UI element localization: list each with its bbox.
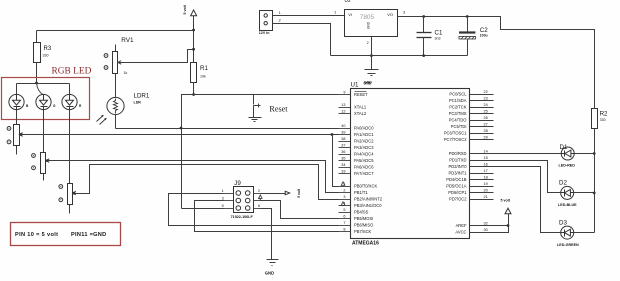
- wire PD1 to LED D2: [470, 161, 561, 193]
- wire bus to LED G (diagonal): [37, 83, 44, 95]
- LED G (green of RGB): [36, 94, 56, 109]
- junction dot AREF/AVCC: [507, 224, 510, 227]
- svg-text:PC0/SCL: PC0/SCL: [449, 92, 467, 97]
- resistor R3: [34, 31, 52, 84]
- connector 12V in: [259, 11, 281, 35]
- LED B (blue of RGB): [9, 94, 29, 109]
- svg-text:33: 33: [341, 170, 345, 174]
- wire RV1 wiper to 5V node: [118, 50, 194, 63]
- svg-text:RGB LED: RGB LED: [52, 67, 92, 77]
- connector J9 (ISP 2x3): [222, 180, 261, 219]
- arrow terminal at MCU pin 4: [341, 202, 345, 206]
- svg-text:XTAL2: XTAL2: [354, 111, 367, 116]
- svg-text:71922-106LF: 71922-106LF: [231, 215, 254, 219]
- svg-text:13: 13: [341, 103, 345, 107]
- svg-text:24: 24: [484, 103, 488, 107]
- svg-text:PC6/TOSC1: PC6/TOSC1: [444, 131, 467, 136]
- svg-text:PD5/OC1A: PD5/OC1A: [446, 184, 467, 189]
- svg-text:VO: VO: [387, 12, 393, 17]
- svg-text:AVCC: AVCC: [455, 230, 466, 235]
- svg-text:U2: U2: [344, 0, 351, 4]
- svg-text:26: 26: [484, 116, 488, 120]
- wire PD2 to LED D3: [470, 167, 561, 233]
- svg-text:PC3/TMS: PC3/TMS: [449, 111, 467, 116]
- svg-text:PD1/TXD: PD1/TXD: [449, 158, 466, 163]
- wire 5V top rail to R3: [37, 30, 194, 32]
- wire reset net left/down rail: [182, 95, 194, 209]
- junction dot C2 top: [466, 15, 469, 18]
- svg-text:5 volt: 5 volt: [297, 188, 301, 198]
- junction dot preset2 wiper: [46, 159, 49, 162]
- svg-text:12V in: 12V in: [259, 31, 270, 35]
- ground symbol (J9 pin6): [267, 260, 279, 266]
- svg-text:C1: C1: [435, 29, 443, 36]
- wire J9 pin4 to PB5 (pin 6): [261, 201, 339, 219]
- svg-text:5 volt: 5 volt: [183, 4, 187, 14]
- preset trimmer 3 (R): [59, 184, 76, 214]
- svg-text:XTAL1: XTAL1: [354, 105, 367, 110]
- capacitor C2 (electrolytic): [459, 17, 488, 56]
- svg-text:25: 25: [484, 110, 488, 114]
- wire AVCC to 5v node: [470, 226, 509, 233]
- svg-text:PC2/TCK: PC2/TCK: [449, 105, 467, 110]
- svg-text:3: 3: [343, 195, 345, 199]
- LED D1: [559, 144, 576, 168]
- svg-text:6: 6: [258, 204, 260, 208]
- svg-text:PIN 10 = 5 volt: PIN 10 = 5 volt: [15, 232, 58, 238]
- svg-text:PD7/OC2: PD7/OC2: [449, 197, 467, 202]
- pot RV1: [104, 37, 134, 75]
- svg-text:PC4/TDO: PC4/TDO: [449, 118, 467, 123]
- arrow terminal at MCU pin 1: [341, 182, 345, 186]
- wire LED R cathode to preset 3: [69, 110, 71, 184]
- svg-text:23: 23: [484, 97, 488, 101]
- ground bus (power section): [331, 55, 468, 57]
- svg-text:PA6/ADC6: PA6/ADC6: [354, 165, 374, 170]
- svg-text:18: 18: [484, 176, 488, 180]
- junction dot RV1/R1/5V: [192, 48, 195, 51]
- svg-text:5 volt: 5 volt: [501, 199, 511, 203]
- svg-text:34: 34: [341, 163, 345, 167]
- svg-text:R1: R1: [200, 65, 208, 72]
- svg-text:D2: D2: [559, 180, 567, 187]
- wire J9 pin2 to 5 volt terminal: [261, 193, 286, 195]
- preset trimmer 1 (B): [7, 125, 23, 155]
- svg-text:VI: VI: [348, 12, 352, 17]
- wire 7805 GND pin to bus: [367, 37, 372, 56]
- svg-text:3: 3: [403, 11, 405, 15]
- svg-text:B: B: [26, 104, 29, 108]
- junction dot D2 rail: [593, 192, 596, 195]
- svg-text:17: 17: [484, 169, 488, 173]
- svg-text:PC1/SDA: PC1/SDA: [449, 98, 467, 103]
- svg-text:GND: GND: [364, 81, 372, 85]
- svg-text:3n3: 3n3: [435, 37, 441, 41]
- svg-text:LDR1: LDR1: [134, 93, 150, 100]
- svg-text:J9: J9: [234, 180, 241, 187]
- wire PD0 to LED D1: [470, 153, 562, 155]
- wire RV1 bottom to LDR1: [115, 74, 117, 98]
- svg-text:PA2/ADC2: PA2/ADC2: [354, 139, 374, 144]
- push button Reset: [254, 95, 261, 118]
- junction dot C1 top: [422, 15, 425, 18]
- svg-text:6: 6: [343, 215, 345, 219]
- svg-text:GND: GND: [265, 271, 274, 276]
- wire bus to LED R: [69, 84, 71, 95]
- label RGB LED: [52, 67, 92, 77]
- svg-text:ATMEGA16: ATMEGA16: [352, 241, 379, 247]
- arrow terminal at J9 pin 4: [259, 195, 263, 201]
- svg-text:30: 30: [484, 228, 488, 232]
- ground under reset button: [249, 118, 262, 122]
- svg-text:PA3/ADC3: PA3/ADC3: [354, 145, 374, 150]
- wire preset1 wiper to PA1 (pin 39): [21, 134, 339, 136]
- svg-text:20: 20: [484, 189, 488, 193]
- wire 7805 VO output rail: [398, 17, 595, 109]
- svg-text:40: 40: [341, 124, 345, 128]
- label GND (J9 ground): [265, 271, 274, 276]
- svg-text:PIN11 =GND: PIN11 =GND: [71, 232, 107, 238]
- resistor R2: [592, 109, 609, 129]
- svg-text:PD0/RXD: PD0/RXD: [449, 151, 467, 156]
- svg-text:7805: 7805: [360, 14, 375, 21]
- label PIN 10 = 5 volt: [15, 232, 58, 238]
- resistor R1: [191, 63, 209, 95]
- capacitor C1: [417, 17, 443, 56]
- svg-text:29: 29: [484, 136, 488, 140]
- svg-text:RESET: RESET: [354, 92, 368, 97]
- svg-text:RV1: RV1: [121, 37, 134, 44]
- wire reset rail to J9 pin 5: [182, 208, 224, 210]
- ground symbol under 7805: [365, 56, 379, 76]
- svg-text:1: 1: [222, 189, 224, 193]
- svg-text:PA5/ADC5: PA5/ADC5: [354, 158, 374, 163]
- wire D1 to rail: [575, 153, 595, 155]
- svg-text:PD6/ICP1: PD6/ICP1: [448, 190, 467, 195]
- svg-text:PB1/T1: PB1/T1: [354, 190, 368, 195]
- junction dot preset1 wiper: [20, 133, 23, 136]
- svg-text:R3: R3: [44, 46, 52, 52]
- wire LED G cathode to preset 2: [43, 110, 45, 153]
- svg-text:PB4/SS: PB4/SS: [354, 210, 369, 215]
- wire reset net to MCU pin 9: [194, 94, 339, 96]
- svg-text:15: 15: [484, 156, 488, 160]
- svg-text:39: 39: [341, 131, 345, 135]
- svg-text:1: 1: [334, 11, 336, 15]
- svg-text:35: 35: [341, 157, 345, 161]
- svg-text:2: 2: [367, 41, 369, 45]
- junction dot PA1/PB0 branch: [331, 133, 334, 136]
- wire LED B cathode to preset 1: [16, 110, 18, 125]
- svg-text:2: 2: [343, 189, 345, 193]
- junction dot R3/bus: [35, 82, 38, 85]
- junction dot C1 bottom: [422, 54, 425, 57]
- label PIN11 = GND: [71, 232, 107, 238]
- wire D3 to rail: [574, 232, 595, 234]
- svg-text:U1: U1: [351, 82, 359, 89]
- preset trimmer 2 (G): [32, 153, 50, 181]
- power terminal 5 volt (J9 pin2): [285, 188, 301, 198]
- svg-text:1k: 1k: [124, 71, 128, 75]
- svg-text:330: 330: [43, 54, 49, 58]
- wire rail R2 to LEDs: [594, 129, 596, 233]
- regulator U2 7805: [334, 0, 405, 37]
- wire 12V pin2 to ground bus: [273, 24, 331, 56]
- svg-text:9: 9: [343, 91, 345, 95]
- svg-text:PA1/ADC1: PA1/ADC1: [354, 132, 374, 137]
- wire 12V pin1 to 7805 VI: [273, 15, 345, 17]
- svg-text:PB0/T0/XCK: PB0/T0/XCK: [354, 184, 377, 189]
- svg-text:PC5/TDI: PC5/TDI: [451, 124, 467, 129]
- svg-text:37: 37: [341, 144, 345, 148]
- IC U1 ATMEGA16: [339, 81, 494, 246]
- power terminal 5 volt (AREF): [501, 199, 512, 226]
- svg-text:PA0/ADC0: PA0/ADC0: [354, 126, 374, 131]
- svg-text:Reset: Reset: [269, 105, 288, 114]
- svg-text:2: 2: [279, 19, 281, 23]
- wire D2 to rail: [574, 192, 595, 194]
- label Reset: [269, 105, 288, 114]
- wire bus to LED B: [16, 84, 18, 95]
- junction dot reset rail at PA0 wire: [180, 127, 183, 130]
- svg-text:1: 1: [279, 11, 281, 15]
- svg-text:27: 27: [484, 123, 488, 127]
- svg-text:10k: 10k: [200, 75, 206, 79]
- wire 5V down to R1: [193, 31, 195, 63]
- svg-text:8: 8: [343, 228, 345, 232]
- wire branch PA1 to PB0 (pin 1): [333, 135, 339, 187]
- wire preset3 wiper to PB2 (pin 3): [75, 165, 339, 200]
- note box PIN10/PIN11 (red): [11, 223, 121, 246]
- LED D2: [558, 180, 577, 208]
- svg-text:R2: R2: [600, 111, 608, 118]
- svg-text:PD3/INT1: PD3/INT1: [449, 171, 468, 176]
- svg-text:2: 2: [258, 189, 260, 193]
- svg-text:PB6/MISO: PB6/MISO: [354, 223, 373, 228]
- svg-text:R: R: [79, 104, 82, 108]
- svg-text:5: 5: [222, 204, 224, 208]
- wire J9 pin3 to PB7 (pin 8): [195, 201, 339, 232]
- svg-text:LED-GREEN: LED-GREEN: [557, 243, 579, 247]
- svg-text:AREF: AREF: [456, 223, 467, 228]
- svg-text:7: 7: [343, 221, 345, 225]
- svg-text:PD2/INT0: PD2/INT0: [449, 164, 468, 169]
- LDR LDR1: [97, 93, 150, 125]
- wire preset2 wiper to PB1 (pin 2): [48, 161, 339, 193]
- svg-text:PA7/ADC7: PA7/ADC7: [354, 171, 374, 176]
- svg-text:PA4/ADC4: PA4/ADC4: [354, 152, 374, 157]
- svg-text:12: 12: [341, 110, 345, 114]
- svg-text:D3: D3: [559, 220, 567, 227]
- wire J9 pin1 to PB6 (pin 7): [169, 194, 339, 226]
- RGB LED group box (red): [2, 78, 90, 120]
- svg-text:PB7/SCK: PB7/SCK: [354, 229, 372, 234]
- wire AREF to 5v node: [470, 225, 509, 227]
- svg-text:19: 19: [484, 182, 488, 186]
- svg-text:PC7/TOSC2: PC7/TOSC2: [444, 137, 467, 142]
- svg-text:330: 330: [600, 118, 606, 122]
- svg-text:LED-BLUE: LED-BLUE: [558, 203, 577, 207]
- svg-text:28: 28: [484, 129, 488, 133]
- svg-text:100u: 100u: [480, 34, 488, 38]
- wire J9 pin6 to ground: [261, 209, 272, 260]
- svg-text:22: 22: [484, 90, 488, 94]
- svg-text:5: 5: [343, 208, 345, 212]
- svg-text:38: 38: [341, 137, 345, 141]
- svg-text:G: G: [53, 104, 56, 108]
- junction dot R1 bottom/reset net: [192, 93, 195, 96]
- LED R (red of RGB): [62, 94, 82, 109]
- svg-text:21: 21: [484, 195, 488, 199]
- svg-text:GND: GND: [367, 21, 371, 29]
- svg-text:3: 3: [222, 197, 224, 201]
- svg-text:D1: D1: [560, 144, 568, 151]
- svg-text:PB2/AIN0/INT2: PB2/AIN0/INT2: [354, 197, 383, 202]
- junction dot 7805 gnd: [370, 54, 373, 57]
- svg-text:LDR: LDR: [134, 101, 142, 105]
- wire LED anode bus: [17, 83, 70, 85]
- junction dot 5V/R1: [192, 29, 195, 32]
- junction dot D1 rail: [593, 152, 596, 155]
- junction dot preset3 wiper: [73, 192, 76, 195]
- svg-text:PB5/MOSI: PB5/MOSI: [354, 216, 373, 221]
- svg-text:36: 36: [341, 150, 345, 154]
- power terminal 5V (top left): [183, 4, 196, 30]
- svg-text:LED-RED: LED-RED: [559, 164, 576, 168]
- LED D3: [557, 220, 579, 248]
- svg-text:PB3/AIN1/OC0: PB3/AIN1/OC0: [354, 203, 382, 208]
- wire LDR1 bottom to PA0 (pin 40): [116, 115, 339, 129]
- label GND (7805 ground): [364, 81, 372, 85]
- svg-text:PD4/OC1B: PD4/OC1B: [446, 177, 467, 182]
